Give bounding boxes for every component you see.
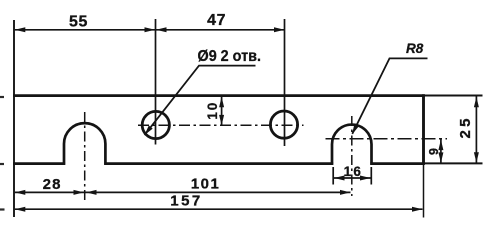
svg-text:47: 47 bbox=[207, 12, 226, 29]
vertical centerline of notch bbox=[84, 112, 86, 200]
horizontal centerline of slot arc, extension for dim 9 bbox=[326, 138, 448, 140]
horizontal centerline through both holes bbox=[138, 124, 304, 126]
svg-text:10: 10 bbox=[205, 101, 220, 120]
hole 1, diameter 9 bbox=[142, 111, 169, 138]
dimension 16: slot width bbox=[332, 167, 334, 185]
semicircular notch in bottom edge bbox=[64, 123, 105, 165]
extension line through hole 2 bbox=[284, 19, 286, 146]
part outline: right edge bbox=[422, 94, 425, 165]
leader line for holes label bbox=[145, 66, 256, 135]
svg-text:55: 55 bbox=[69, 14, 88, 31]
svg-text:101: 101 bbox=[191, 176, 221, 193]
leader line for R8 bbox=[352, 58, 427, 133]
top edge extension to the right bbox=[424, 95, 483, 97]
dimension line 55 and 47 (top) bbox=[15, 29, 285, 31]
svg-text:9: 9 bbox=[427, 148, 441, 155]
dimension 9: slot arc centre to bottom edge bbox=[440, 140, 442, 164]
svg-text:R8: R8 bbox=[406, 41, 424, 56]
svg-text:16: 16 bbox=[344, 164, 364, 179]
svg-text:157: 157 bbox=[170, 192, 203, 209]
scan artifact marks at left margin bbox=[0, 97, 5, 210]
part outline: left edge and its extension line bbox=[13, 20, 15, 217]
dimension 25: plate width bbox=[475, 97, 477, 164]
dimension 10: hole centre to top edge bbox=[221, 97, 223, 126]
part outline: bottom edge segments bbox=[13, 162, 425, 165]
svg-text:Ø9 2 отв.: Ø9 2 отв. bbox=[198, 48, 262, 65]
dimension line 157 (bottom) bbox=[15, 208, 423, 210]
vertical centerline of slot bbox=[351, 116, 353, 196]
dimension line 28 and 101 (bottom) bbox=[15, 191, 351, 193]
extension of right edge downwards bbox=[423, 165, 425, 218]
bottom edge extension to the right bbox=[424, 162, 483, 164]
extension line through hole 1 bbox=[155, 19, 157, 145]
part outline: top edge bbox=[13, 94, 425, 97]
hole 2, diameter 9 bbox=[270, 111, 297, 138]
svg-text:28: 28 bbox=[43, 176, 62, 193]
rounded slot R8 in bottom edge bbox=[332, 125, 372, 165]
svg-text:25: 25 bbox=[457, 115, 474, 138]
